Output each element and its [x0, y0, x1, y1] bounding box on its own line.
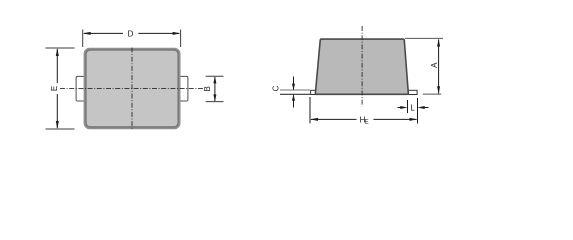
- svg-text:E: E: [365, 120, 369, 126]
- svg-text:C: C: [271, 85, 280, 91]
- svg-text:L: L: [410, 103, 415, 112]
- svg-text:E: E: [50, 86, 59, 91]
- svg-text:B: B: [203, 86, 212, 91]
- svg-text:A: A: [430, 62, 439, 68]
- svg-text:D: D: [128, 29, 134, 38]
